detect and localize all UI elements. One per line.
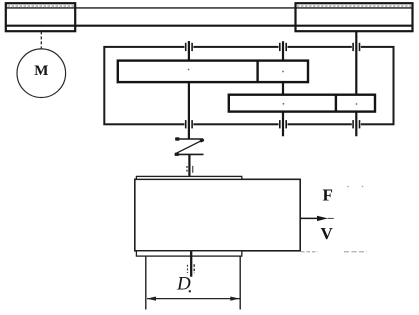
belt plate (top of drum) [136,176,241,179]
shaft centre dot in gear stage 2 left segment [283,103,285,105]
bearing (shaft I, bottom wall) [353,120,359,128]
svg-text:M: M [34,63,48,79]
drum shaft stub (crosses bottom plate, ends above label D) [190,252,192,277]
drum shaft bearing dash (right of stub) [193,264,195,273]
shaft centre dot in gear stage 1 left segment [188,69,190,71]
support leg (left extension line) [145,256,147,309]
conveyor body (drum housing rectangle) [135,179,300,251]
bearing (shaft I, top wall) [353,43,359,51]
shaft centre dot in gear stage 1 right segment [282,71,284,73]
bearing (shaft III, bottom wall) [186,120,192,128]
motor shaft (dashed link pulley to motor) [40,31,42,49]
belt bottom run [6,25,413,27]
drum shaft bearing dash (left of stub) [187,265,189,273]
shaft I (gearbox input, from pulley P2) [355,31,357,136]
gear block stage 1 (gears on shafts III and II) [118,61,308,83]
label D dot [189,290,191,292]
gear block stage 2 divider [335,95,337,112]
motor M circle [17,49,66,98]
force arrow F (pulling force on belt) [300,216,334,221]
drum shaft (coupling to drum) [188,154,190,176]
gear block stage 2 (gears on shafts II and I) [229,95,375,112]
bearing (shaft III, top wall) [186,43,192,51]
drum bearing ticks (top) [187,166,193,173]
belt (flat belt spanning both pulleys) top run [6,7,413,9]
pulley P1 inner edge line [8,5,75,7]
gear block stage 1 divider [256,61,258,83]
bearing (shaft II, bottom wall) [280,120,286,128]
belt plate (bottom of drum) [136,251,241,256]
support leg (right extension line) [239,256,241,309]
pulley P2 inner edge line [297,5,411,7]
svg-text:F: F [323,186,333,205]
shaft II (intermediate shaft) [282,41,284,136]
scan artifact dashes right of drum corner [301,251,318,253]
housing wall gaps at bearings [184,46,360,126]
svg-text:V: V [321,224,334,243]
coupling (zigzag between output shaft and drum shaft) [175,139,204,154]
pulley P1 (driving pulley on motor shaft) [6,3,75,31]
dimension line for D with arrowheads [147,297,240,301]
pulley P2 (driven pulley on gearbox input shaft) [296,3,413,31]
shaft III (output shaft) [188,41,190,140]
bearing (shaft II, top wall) [280,43,286,51]
gearbox housing [104,47,393,124]
shaft centre dot in gear stage 2 right segment [356,103,358,105]
